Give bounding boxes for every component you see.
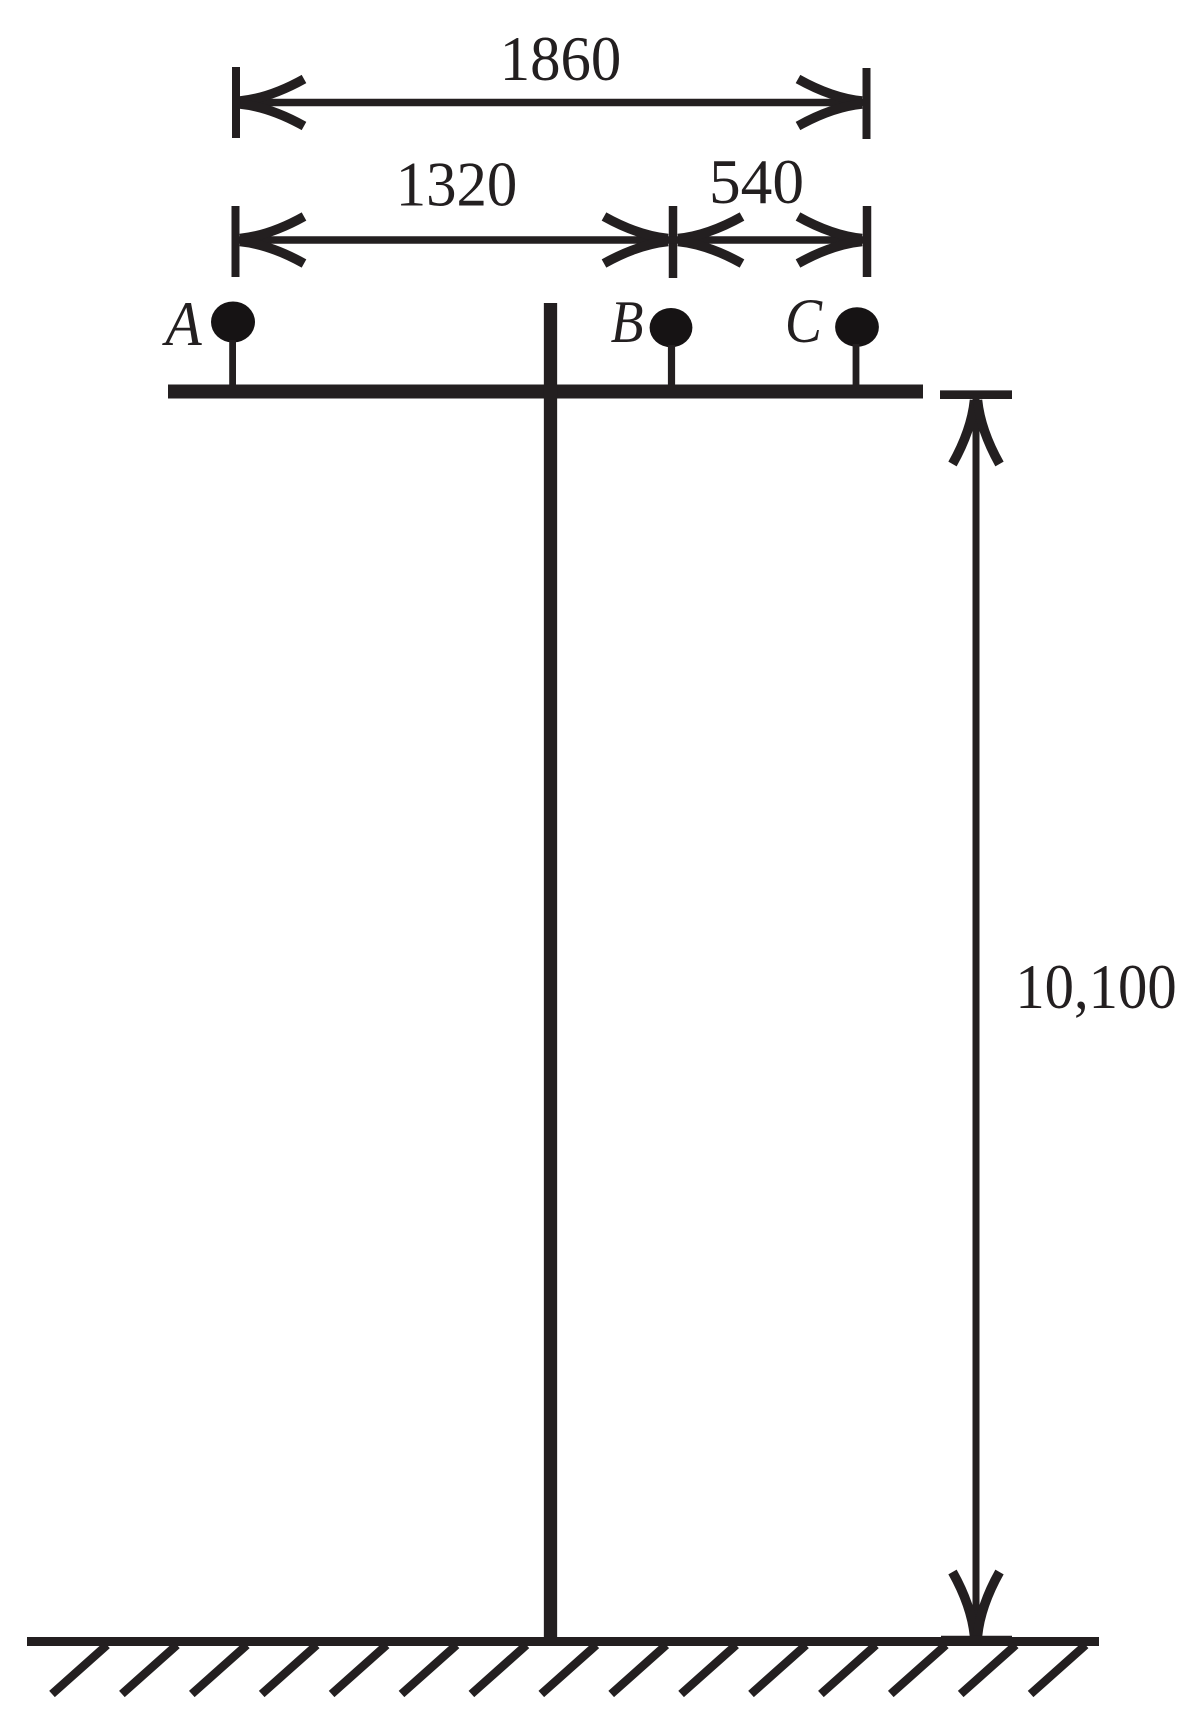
svg-text:1860: 1860 xyxy=(500,23,622,95)
dimension 1860: left extension tick xyxy=(232,67,240,138)
dimension 1860: dimension line xyxy=(240,99,863,107)
conductor C: insulator circle xyxy=(835,307,879,347)
crossarm xyxy=(168,385,923,399)
dimension 10,100: value label "10,100" xyxy=(1015,952,1176,1023)
conductor C: label xyxy=(785,285,823,355)
dimension 10,100: bottom arrowhead (pointing down) xyxy=(953,1572,1000,1636)
conductor A: insulator circle xyxy=(211,302,255,343)
dimension 10,100: vertical dimension line xyxy=(973,399,980,1636)
dimension 1860: right extension tick xyxy=(863,68,871,139)
conductor C: pin stem xyxy=(853,344,860,392)
dimension 1860: left arrowhead xyxy=(240,79,304,126)
conductor A: label xyxy=(161,289,201,359)
dimension 1320/540: right extension tick xyxy=(863,206,872,277)
conductor B: label xyxy=(611,289,644,356)
svg-text:B: B xyxy=(611,289,644,356)
ground line xyxy=(27,1637,1099,1646)
svg-text:1320: 1320 xyxy=(396,148,518,220)
svg-text:C: C xyxy=(785,285,823,355)
dimension 10,100: top arrowhead (pointing up) xyxy=(953,400,1000,464)
dimension 1320: right arrowhead at middle tick xyxy=(604,217,668,264)
pole xyxy=(544,303,557,1645)
svg-text:540: 540 xyxy=(709,146,804,217)
dimension 1320/540: middle extension tick xyxy=(669,206,678,278)
dimension 540: right arrowhead xyxy=(798,217,862,264)
dimension 1860: value label "1860" xyxy=(500,23,622,95)
conductor A: pin stem xyxy=(229,340,236,392)
dimension 1320/540: left extension tick xyxy=(232,206,240,277)
conductor B: pin stem xyxy=(668,345,675,392)
dimension 540: value label "540" xyxy=(709,146,804,217)
conductor B: insulator circle xyxy=(650,308,693,347)
dimension 1320/540: dimension line xyxy=(239,236,863,244)
ground hatching xyxy=(52,1645,1086,1694)
dimension 1320: value label "1320" xyxy=(396,148,518,220)
dimension 1860: right arrowhead xyxy=(798,79,862,126)
dimension 540: left arrowhead at middle tick xyxy=(678,217,742,264)
dimension 10,100: bottom extension tick xyxy=(941,1636,1012,1645)
svg-text:10,100: 10,100 xyxy=(1015,952,1176,1023)
dimension 10,100: top extension tick xyxy=(940,390,1012,399)
dimension 1320: left arrowhead xyxy=(240,217,304,264)
svg-text:A: A xyxy=(161,289,201,359)
